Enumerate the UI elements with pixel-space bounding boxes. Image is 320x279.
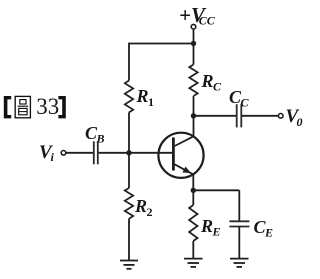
svg-text:C: C <box>241 96 250 110</box>
wire RE bottom lead <box>192 241 194 259</box>
junction collector node <box>191 113 196 118</box>
junction base node <box>126 150 131 155</box>
wire CB to base node <box>99 152 129 154</box>
wire emitter lead to emitter node <box>192 174 194 190</box>
svg-text:C: C <box>213 80 222 94</box>
capacitor CB <box>94 141 98 164</box>
label V0 output <box>286 106 303 129</box>
terminal V0 open circle <box>278 114 283 119</box>
label figure caption 【圖 33】 left bracket <box>4 96 11 118</box>
resistor R2 <box>125 188 133 219</box>
wire collector node to CC <box>194 115 237 117</box>
wire collector lead into transistor <box>193 116 195 137</box>
ground below CE <box>230 259 249 267</box>
wire RE top lead <box>192 190 194 205</box>
label CB <box>85 123 105 146</box>
svg-text:E: E <box>212 225 221 239</box>
resistor R1 <box>125 81 133 113</box>
wire R2 bottom lead <box>128 219 130 261</box>
wire CE top lead <box>238 190 240 221</box>
label Vi input <box>39 142 55 164</box>
wire CC to V0 terminal <box>242 115 278 117</box>
resistor RE <box>189 205 197 241</box>
resistor RC <box>189 65 197 96</box>
label RC <box>201 71 223 94</box>
svg-text:CC: CC <box>199 14 216 28</box>
label figure caption right bracket <box>58 96 65 118</box>
wire R1 bottom lead to base node <box>128 112 130 152</box>
label +VCC supply <box>179 3 216 28</box>
svg-text:33: 33 <box>36 94 59 119</box>
wire base node to transistor base <box>129 152 172 154</box>
wire Vi to CB <box>66 152 93 154</box>
terminal Vi open circle <box>61 151 66 156</box>
label RE <box>200 216 221 239</box>
transistor Q1 base bar <box>172 138 175 171</box>
transistor Q1 emitter arrowhead <box>182 167 191 174</box>
capacitor CE <box>229 221 249 226</box>
svg-text:2: 2 <box>147 205 153 219</box>
label R1 <box>136 86 155 109</box>
wire RC bottom lead to collector node <box>193 96 195 116</box>
label CE <box>254 217 274 240</box>
terminal +VCC open circle <box>191 24 196 29</box>
svg-text:0: 0 <box>297 115 303 129</box>
junction emitter node <box>191 188 196 193</box>
ground below R2 <box>120 261 138 269</box>
svg-text:R: R <box>201 71 214 91</box>
label figure caption 圖 character <box>15 96 30 117</box>
wire VCC terminal to top rail <box>193 29 195 43</box>
svg-text:R: R <box>136 86 149 106</box>
capacitor CC <box>237 104 242 127</box>
svg-text:B: B <box>96 132 105 146</box>
svg-text:1: 1 <box>148 95 154 109</box>
ground below RE <box>184 259 203 267</box>
wire top rail <box>129 43 194 45</box>
junction VCC node <box>191 41 196 46</box>
wire emitter node to CE branch <box>193 189 239 191</box>
label CC <box>229 87 250 110</box>
svg-text:R: R <box>200 216 213 236</box>
label R2 <box>134 196 153 219</box>
wire R2 top lead <box>128 153 130 188</box>
transistor Q1 circle <box>158 133 203 178</box>
wire R1 top lead <box>128 43 130 81</box>
svg-text:R: R <box>134 196 147 216</box>
wire RC top lead <box>193 44 195 65</box>
wire CE bottom lead <box>238 227 240 259</box>
svg-text:E: E <box>264 226 273 240</box>
transistor Q1 emitter diagonal <box>175 164 193 174</box>
transistor Q1 collector diagonal <box>175 136 194 146</box>
